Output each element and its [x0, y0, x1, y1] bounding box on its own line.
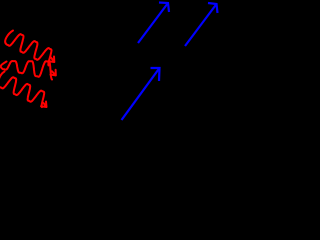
electron arrow 1 (top middle blue) [138, 3, 169, 44]
photon wavy arrow 3 (bottom red squiggle) [0, 72, 46, 108]
electron 3 shaft [122, 68, 160, 120]
photon 1 arrowhead [49, 57, 55, 63]
electron 2 arrowhead [208, 3, 218, 13]
electron 1 arrowhead [159, 3, 169, 13]
photon wavy arrow 2 (middle red squiggle) [1, 61, 56, 80]
photon 2 arrowhead [51, 70, 56, 76]
photon 2 wavy shaft [1, 61, 52, 80]
photon wavy arrow 1 (top red squiggle) [5, 31, 54, 66]
electron 2 shaft [185, 4, 217, 46]
electron 3 arrowhead [151, 68, 160, 81]
electron 1 shaft [138, 3, 168, 43]
electron arrow 3 (long middle blue) [122, 68, 160, 120]
photon 1 wavy shaft [5, 31, 51, 66]
photon 3 arrowhead [41, 102, 47, 108]
electron arrow 2 (top right blue) [185, 3, 218, 46]
photon 3 wavy shaft [0, 72, 44, 108]
